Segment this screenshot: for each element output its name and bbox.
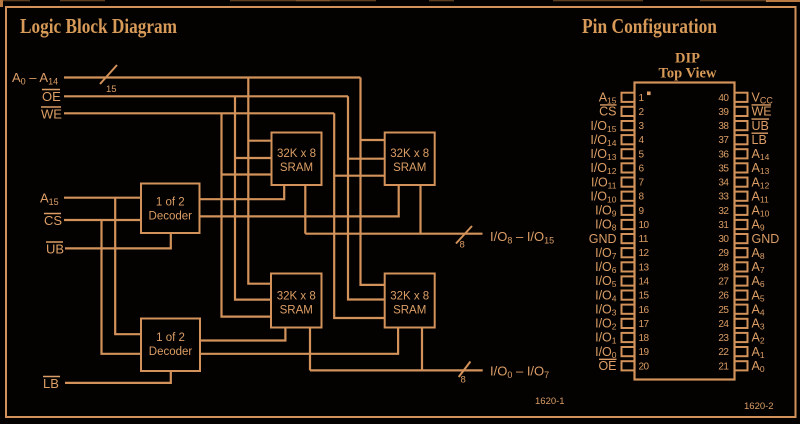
pin 12 (I/O7) left side	[595, 246, 649, 261]
svg-text:15: 15	[106, 84, 117, 95]
pin 39 (WE) right side	[718, 105, 771, 119]
SRAM U6: lower-right 32K x 8 SRAM	[385, 274, 435, 328]
svg-text:31: 31	[718, 220, 729, 231]
pin 5 (I/O13) left side	[590, 147, 644, 162]
wire: address branch into upper-left SRAM	[248, 140, 271, 142]
wire: CS to upper decoder	[64, 219, 141, 221]
svg-text:12: 12	[639, 248, 650, 259]
bus slash 8 on I/O0-7 bus	[459, 362, 471, 386]
pin 28 (A7) right side	[718, 260, 764, 275]
SRAM U4: upper-right 32K x 8 SRAM	[385, 133, 435, 186]
net label UB (active low)	[46, 242, 64, 257]
wire: address vertical to left SRAM pair	[248, 78, 271, 284]
pin 18 (I/O1) left side	[595, 331, 649, 346]
pin 25 (A4) right side	[718, 302, 764, 317]
pin 27 (A6) right side	[718, 274, 764, 289]
svg-text:33: 33	[718, 192, 729, 203]
svg-text:Pin Configuration: Pin Configuration	[582, 14, 717, 38]
pin 7 (I/O11) left side	[591, 175, 645, 190]
svg-text:SRAM: SRAM	[393, 305, 426, 317]
wire: OE vertical to right SRAM pair	[348, 96, 385, 299]
svg-text:UB: UB	[46, 242, 64, 257]
wire: A15 to upper decoder	[64, 197, 141, 199]
wire: address branch into upper-right SRAM	[361, 139, 385, 141]
svg-text:SRAM: SRAM	[280, 305, 313, 317]
pin 6 (I/O12) left side	[590, 161, 644, 176]
wire: OE branch into upper-left SRAM	[235, 157, 272, 159]
svg-text:Top View: Top View	[659, 66, 717, 82]
wire: A15 branch down to lower decoder	[115, 198, 141, 335]
pin 16 (I/O3) left side	[595, 302, 649, 317]
svg-text:32K x 8: 32K x 8	[277, 148, 316, 160]
svg-text:11: 11	[639, 234, 649, 245]
pin 21 (A0) right side	[718, 359, 764, 374]
svg-text:15: 15	[639, 291, 650, 302]
svg-text:32K x 8: 32K x 8	[390, 291, 429, 303]
wire: OE horizontal	[64, 95, 348, 97]
pin 17 (I/O2) left side	[595, 317, 649, 332]
svg-text:20: 20	[639, 361, 650, 372]
pin 35 (A13) right side	[718, 161, 769, 176]
svg-text:Decoder: Decoder	[149, 211, 193, 223]
svg-text:WE: WE	[41, 107, 62, 122]
svg-text:CS: CS	[599, 105, 616, 119]
pin 11 (GND) left side	[589, 232, 649, 246]
pin 31 (A9) right side	[718, 218, 764, 233]
pin 23 (A2) right side	[718, 331, 764, 346]
wire: WE vertical to left SRAM pair	[222, 113, 272, 316]
net label WE (active low)	[41, 107, 62, 122]
svg-text:CS: CS	[44, 213, 62, 228]
svg-text:17: 17	[639, 319, 650, 330]
bus slash 15 on address bus	[100, 65, 117, 95]
svg-text:I/O0 – I/O7: I/O0 – I/O7	[490, 364, 549, 381]
DIP package body	[635, 83, 735, 380]
svg-text:Logic Block Diagram: Logic Block Diagram	[20, 14, 177, 38]
svg-text:16: 16	[639, 305, 650, 316]
pin 2 (CS) left side	[599, 105, 644, 119]
svg-text:SRAM: SRAM	[393, 162, 426, 174]
wire: LB to lower decoder bottom	[65, 371, 171, 383]
svg-text:8: 8	[461, 375, 466, 386]
net label LB (active low)	[43, 376, 60, 391]
svg-text:UB: UB	[752, 119, 769, 133]
decoder U1: upper 1 of 2 Decoder	[141, 184, 200, 234]
wire: UB to upper decoder bottom	[65, 233, 171, 248]
wire: WE vertical to right SRAM pair	[334, 113, 385, 318]
svg-text:28: 28	[718, 262, 729, 273]
svg-text:30: 30	[718, 234, 729, 245]
svg-text:25: 25	[718, 305, 729, 316]
net label CS (active low)	[44, 213, 62, 228]
wire: I/O0-I/O7 bus horizontal	[310, 369, 483, 371]
pin 22 (A1) right side	[718, 345, 764, 360]
pin 20 (OE) left side	[598, 359, 649, 373]
svg-text:22: 22	[718, 347, 729, 358]
SRAM U3: upper-left 32K x 8 SRAM	[272, 133, 322, 186]
wire: lower-left SRAM data down to I/O0-7 bus	[309, 328, 311, 371]
svg-text:18: 18	[639, 333, 650, 344]
wire: CS branch down to lower decoder	[102, 220, 142, 354]
svg-text:1620-2: 1620-2	[744, 401, 774, 412]
wire: upper decoder output 2 to upper-right SRAM CS	[200, 185, 399, 216]
svg-text:LB: LB	[43, 376, 59, 391]
wire: lower-right SRAM data down to I/O0-7 bus	[421, 328, 423, 371]
svg-text:27: 27	[718, 277, 729, 288]
svg-text:10: 10	[639, 220, 650, 231]
wire: upper-right SRAM data down to I/O8-15 bus	[419, 185, 421, 234]
svg-text:36: 36	[718, 149, 729, 160]
svg-text:35: 35	[718, 163, 729, 174]
svg-text:32K x 8: 32K x 8	[390, 148, 429, 160]
pin 37 (LB) right side	[718, 133, 768, 147]
wire: WE branch into upper-right SRAM	[334, 175, 385, 177]
pin 38 (UB) right side	[718, 119, 769, 133]
pin 13 (I/O6) left side	[595, 260, 649, 275]
SRAM U5: lower-left 32K x 8 SRAM	[271, 274, 322, 328]
svg-text:26: 26	[718, 291, 729, 302]
wire: I/O8-I/O15 bus horizontal	[305, 233, 482, 235]
svg-text:GND: GND	[589, 232, 617, 246]
pin 3 (I/O15) left side	[590, 119, 644, 134]
pin 9 (I/O9) left side	[595, 204, 644, 219]
wire: lower decoder output 1 to lower-left SRAM CS	[200, 328, 285, 341]
svg-text:DIP: DIP	[675, 51, 700, 67]
pin 34 (A12) right side	[718, 175, 769, 190]
svg-text:24: 24	[718, 319, 729, 330]
svg-text:37: 37	[718, 135, 729, 146]
svg-text:OE: OE	[42, 89, 61, 104]
pin 14 (I/O5) left side	[595, 274, 649, 289]
wire: upper decoder output 1 to upper-left SRAM CS	[200, 185, 285, 199]
svg-text:14: 14	[639, 277, 650, 288]
svg-text:29: 29	[718, 248, 729, 259]
pin 33 (A11) right side	[718, 189, 769, 204]
svg-text:LB: LB	[752, 133, 767, 147]
svg-text:39: 39	[718, 107, 729, 118]
pin 19 (I/O0) left side	[595, 345, 649, 360]
pin 15 (I/O4) left side	[595, 288, 649, 303]
svg-text:1 of 2: 1 of 2	[156, 197, 185, 209]
pin 24 (A3) right side	[718, 317, 764, 332]
bus slash 8 on I/O8-15 bus	[456, 226, 472, 251]
wire: upper-left SRAM data down to I/O8-15 bus	[304, 185, 306, 234]
pin 30 (GND) right side	[718, 232, 779, 246]
wire: lower decoder output 2 to lower-right SRAM CS	[200, 328, 398, 354]
svg-text:40: 40	[718, 93, 729, 104]
svg-text:Decoder: Decoder	[149, 346, 193, 358]
svg-text:8: 8	[460, 240, 465, 251]
svg-text:WE: WE	[752, 105, 772, 119]
pin 1 (A15) left side	[599, 91, 645, 106]
wire: OE branch into upper-right SRAM	[348, 158, 385, 160]
pin 40 (VCC) right side	[718, 91, 773, 106]
svg-text:SRAM: SRAM	[280, 162, 313, 174]
svg-text:GND: GND	[752, 232, 780, 246]
pin 29 (A8) right side	[718, 246, 764, 261]
pin 10 (I/O8) left side	[595, 218, 649, 233]
svg-text:OE: OE	[598, 359, 616, 373]
pin 4 (I/O14) left side	[590, 133, 644, 148]
svg-text:32K x 8: 32K x 8	[277, 291, 316, 303]
pin 36 (A14) right side	[718, 147, 769, 162]
svg-text:19: 19	[639, 347, 650, 358]
wire: OE vertical to left SRAM pair	[235, 96, 271, 299]
pin 26 (A5) right side	[718, 288, 764, 303]
svg-text:32: 32	[718, 206, 729, 217]
svg-text:1620-1: 1620-1	[535, 396, 565, 407]
pin 1 index dot	[647, 92, 651, 96]
wire: WE horizontal	[64, 112, 334, 114]
net label OE (active low)	[42, 89, 61, 104]
wire: A0-A14 address bus horizontal	[64, 76, 361, 78]
svg-text:13: 13	[639, 262, 650, 273]
wire: WE branch into upper-left SRAM	[222, 173, 272, 175]
svg-text:38: 38	[718, 121, 729, 132]
wire: address vertical to right SRAM pair	[361, 78, 385, 285]
svg-text:23: 23	[718, 333, 729, 344]
decoder U2: lower 1 of 2 Decoder	[141, 319, 200, 372]
pin 8 (I/O10) left side	[590, 189, 644, 204]
svg-text:21: 21	[718, 361, 729, 372]
DIP package heading	[659, 51, 717, 82]
pin 32 (A10) right side	[718, 204, 769, 219]
svg-text:34: 34	[718, 178, 729, 189]
svg-text:1 of 2: 1 of 2	[156, 332, 185, 344]
